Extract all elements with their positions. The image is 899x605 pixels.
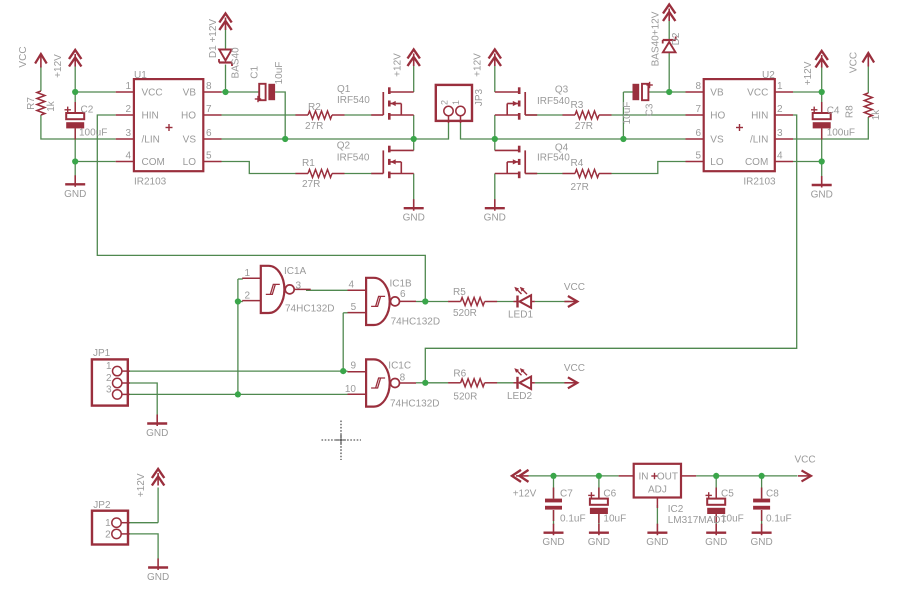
svg-text:R6: R6 xyxy=(453,369,466,380)
svg-text:ADJ: ADJ xyxy=(648,485,667,496)
svg-text:R3: R3 xyxy=(571,100,584,111)
svg-text:/LIN: /LIN xyxy=(142,135,160,146)
svg-text:10: 10 xyxy=(345,384,357,395)
svg-text:GND: GND xyxy=(750,537,772,548)
svg-text:/LIN: /LIN xyxy=(750,135,768,146)
svg-text:0.1uF: 0.1uF xyxy=(560,513,586,524)
svg-text:U1: U1 xyxy=(134,70,147,81)
svg-text:JP2: JP2 xyxy=(93,500,111,511)
svg-text:C1: C1 xyxy=(250,65,261,78)
svg-text:4: 4 xyxy=(125,151,131,162)
svg-text:VCC: VCC xyxy=(142,88,163,99)
svg-text:2: 2 xyxy=(777,104,783,115)
svg-text:LO: LO xyxy=(710,157,724,168)
svg-text:IC1B: IC1B xyxy=(390,279,413,290)
svg-text:VCC: VCC xyxy=(795,455,816,466)
svg-text:C2: C2 xyxy=(81,105,94,116)
svg-text:27R: 27R xyxy=(571,182,589,193)
svg-text:LED2: LED2 xyxy=(507,391,532,402)
svg-text:IRF540: IRF540 xyxy=(337,152,370,163)
svg-text:HO: HO xyxy=(710,111,725,122)
svg-text:2: 2 xyxy=(440,100,450,105)
svg-text:C4: C4 xyxy=(827,106,840,117)
svg-text:7: 7 xyxy=(695,104,701,115)
svg-text:1: 1 xyxy=(125,81,131,92)
svg-text:C8: C8 xyxy=(766,489,779,500)
svg-text:Q3: Q3 xyxy=(555,85,569,96)
svg-text:IRF540: IRF540 xyxy=(537,96,570,107)
svg-text:6: 6 xyxy=(695,128,701,139)
svg-text:10uF: 10uF xyxy=(622,102,633,125)
svg-text:GND: GND xyxy=(542,537,564,548)
svg-text:2: 2 xyxy=(125,104,131,115)
svg-text:GND: GND xyxy=(147,572,169,583)
svg-text:74HC132D: 74HC132D xyxy=(390,399,439,410)
svg-text:3: 3 xyxy=(125,128,131,139)
svg-text:100uF: 100uF xyxy=(827,128,855,139)
svg-text:LO: LO xyxy=(183,157,197,168)
svg-text:VS: VS xyxy=(710,135,724,146)
svg-text:R7: R7 xyxy=(26,97,37,110)
svg-text:C3: C3 xyxy=(645,103,656,116)
svg-text:GND: GND xyxy=(588,537,610,548)
svg-text:6: 6 xyxy=(206,128,212,139)
svg-text:+12V: +12V xyxy=(136,473,147,497)
svg-text:IRF540: IRF540 xyxy=(337,95,370,106)
svg-text:GND: GND xyxy=(146,428,168,439)
svg-text:IR2103: IR2103 xyxy=(134,177,167,188)
svg-text:HIN: HIN xyxy=(751,111,768,122)
svg-text:+12V: +12V xyxy=(473,53,484,77)
svg-text:1: 1 xyxy=(106,361,112,372)
svg-text:4: 4 xyxy=(777,151,783,162)
svg-text:C5: C5 xyxy=(721,489,734,500)
svg-text:Q2: Q2 xyxy=(337,141,351,152)
svg-text:VCC: VCC xyxy=(848,52,859,73)
svg-text:27R: 27R xyxy=(302,179,320,190)
svg-text:R1: R1 xyxy=(302,158,315,169)
svg-text:IRF540: IRF540 xyxy=(537,153,570,164)
svg-text:2: 2 xyxy=(106,373,112,384)
svg-text:74HC132D: 74HC132D xyxy=(285,304,334,315)
svg-text:VB: VB xyxy=(183,88,197,99)
svg-text:7: 7 xyxy=(206,104,212,115)
svg-text:D1 +12V: D1 +12V xyxy=(208,19,219,59)
svg-text:8: 8 xyxy=(206,81,212,92)
svg-text:R4: R4 xyxy=(571,158,584,169)
svg-text:HO: HO xyxy=(181,111,196,122)
svg-text:520R: 520R xyxy=(453,308,477,319)
svg-text:74HC132D: 74HC132D xyxy=(391,316,440,327)
svg-text:3: 3 xyxy=(106,384,112,395)
svg-text:VS: VS xyxy=(183,135,197,146)
svg-text:3: 3 xyxy=(777,128,783,139)
svg-text:VB: VB xyxy=(710,88,724,99)
svg-text:COM: COM xyxy=(745,157,768,168)
svg-text:D2: D2 xyxy=(671,32,682,45)
svg-text:520R: 520R xyxy=(453,392,477,403)
svg-text:JP1: JP1 xyxy=(93,348,111,359)
svg-text:+12V: +12V xyxy=(803,61,814,85)
svg-text:GND: GND xyxy=(646,537,668,548)
svg-text:VCC: VCC xyxy=(564,282,585,293)
svg-text:5: 5 xyxy=(351,302,357,313)
svg-text:8: 8 xyxy=(400,372,406,383)
svg-text:BAS40+12V: BAS40+12V xyxy=(650,11,661,66)
svg-text:OUT: OUT xyxy=(657,472,678,483)
svg-text:1: 1 xyxy=(451,100,461,105)
svg-text:10uF: 10uF xyxy=(603,513,626,524)
svg-text:R8: R8 xyxy=(845,105,856,118)
svg-text:HIN: HIN xyxy=(142,111,159,122)
svg-text:IR2103: IR2103 xyxy=(743,177,776,188)
svg-text:0.1uF: 0.1uF xyxy=(766,513,792,524)
svg-text:5: 5 xyxy=(695,151,701,162)
svg-text:10uF: 10uF xyxy=(274,62,285,85)
svg-text:GND: GND xyxy=(64,189,86,200)
svg-text:IC2: IC2 xyxy=(668,504,684,515)
svg-text:U2: U2 xyxy=(762,70,775,81)
svg-text:Q1: Q1 xyxy=(337,84,351,95)
svg-text:6: 6 xyxy=(400,289,406,300)
svg-text:+12V: +12V xyxy=(53,54,64,78)
svg-text:JP3: JP3 xyxy=(474,88,485,106)
svg-text:100uF: 100uF xyxy=(79,128,107,139)
svg-text:3: 3 xyxy=(296,281,302,292)
svg-text:2: 2 xyxy=(105,529,111,540)
svg-text:R5: R5 xyxy=(453,287,466,298)
svg-text:GND: GND xyxy=(403,213,425,224)
svg-text:9: 9 xyxy=(350,361,356,372)
svg-text:IN: IN xyxy=(639,472,649,483)
svg-text:GND: GND xyxy=(484,213,506,224)
svg-text:8: 8 xyxy=(695,81,701,92)
svg-text:1: 1 xyxy=(105,518,111,529)
svg-text:R2: R2 xyxy=(308,102,321,113)
svg-text:C6: C6 xyxy=(603,489,616,500)
svg-text:C7: C7 xyxy=(560,489,573,500)
svg-text:+12V: +12V xyxy=(513,489,537,500)
svg-text:VCC: VCC xyxy=(747,88,768,99)
svg-text:VCC: VCC xyxy=(564,363,585,374)
svg-text:4: 4 xyxy=(349,280,355,291)
svg-text:1: 1 xyxy=(777,81,783,92)
svg-text:COM: COM xyxy=(142,157,165,168)
svg-text:LED1: LED1 xyxy=(508,310,533,321)
svg-text:27R: 27R xyxy=(575,121,593,132)
svg-text:+12V: +12V xyxy=(392,53,403,77)
svg-text:2: 2 xyxy=(244,290,250,301)
svg-text:1k: 1k xyxy=(871,109,882,121)
svg-text:VCC: VCC xyxy=(18,46,29,67)
svg-text:1: 1 xyxy=(244,268,250,279)
svg-text:1k: 1k xyxy=(46,100,57,112)
svg-text:IC1A: IC1A xyxy=(284,266,307,277)
svg-text:IC1C: IC1C xyxy=(388,361,411,372)
svg-text:5: 5 xyxy=(206,151,212,162)
svg-text:GND: GND xyxy=(811,190,833,201)
svg-text:BAS40: BAS40 xyxy=(231,47,242,79)
svg-text:LM317MADT: LM317MADT xyxy=(668,515,727,526)
svg-text:GND: GND xyxy=(705,537,727,548)
svg-text:27R: 27R xyxy=(305,121,323,132)
